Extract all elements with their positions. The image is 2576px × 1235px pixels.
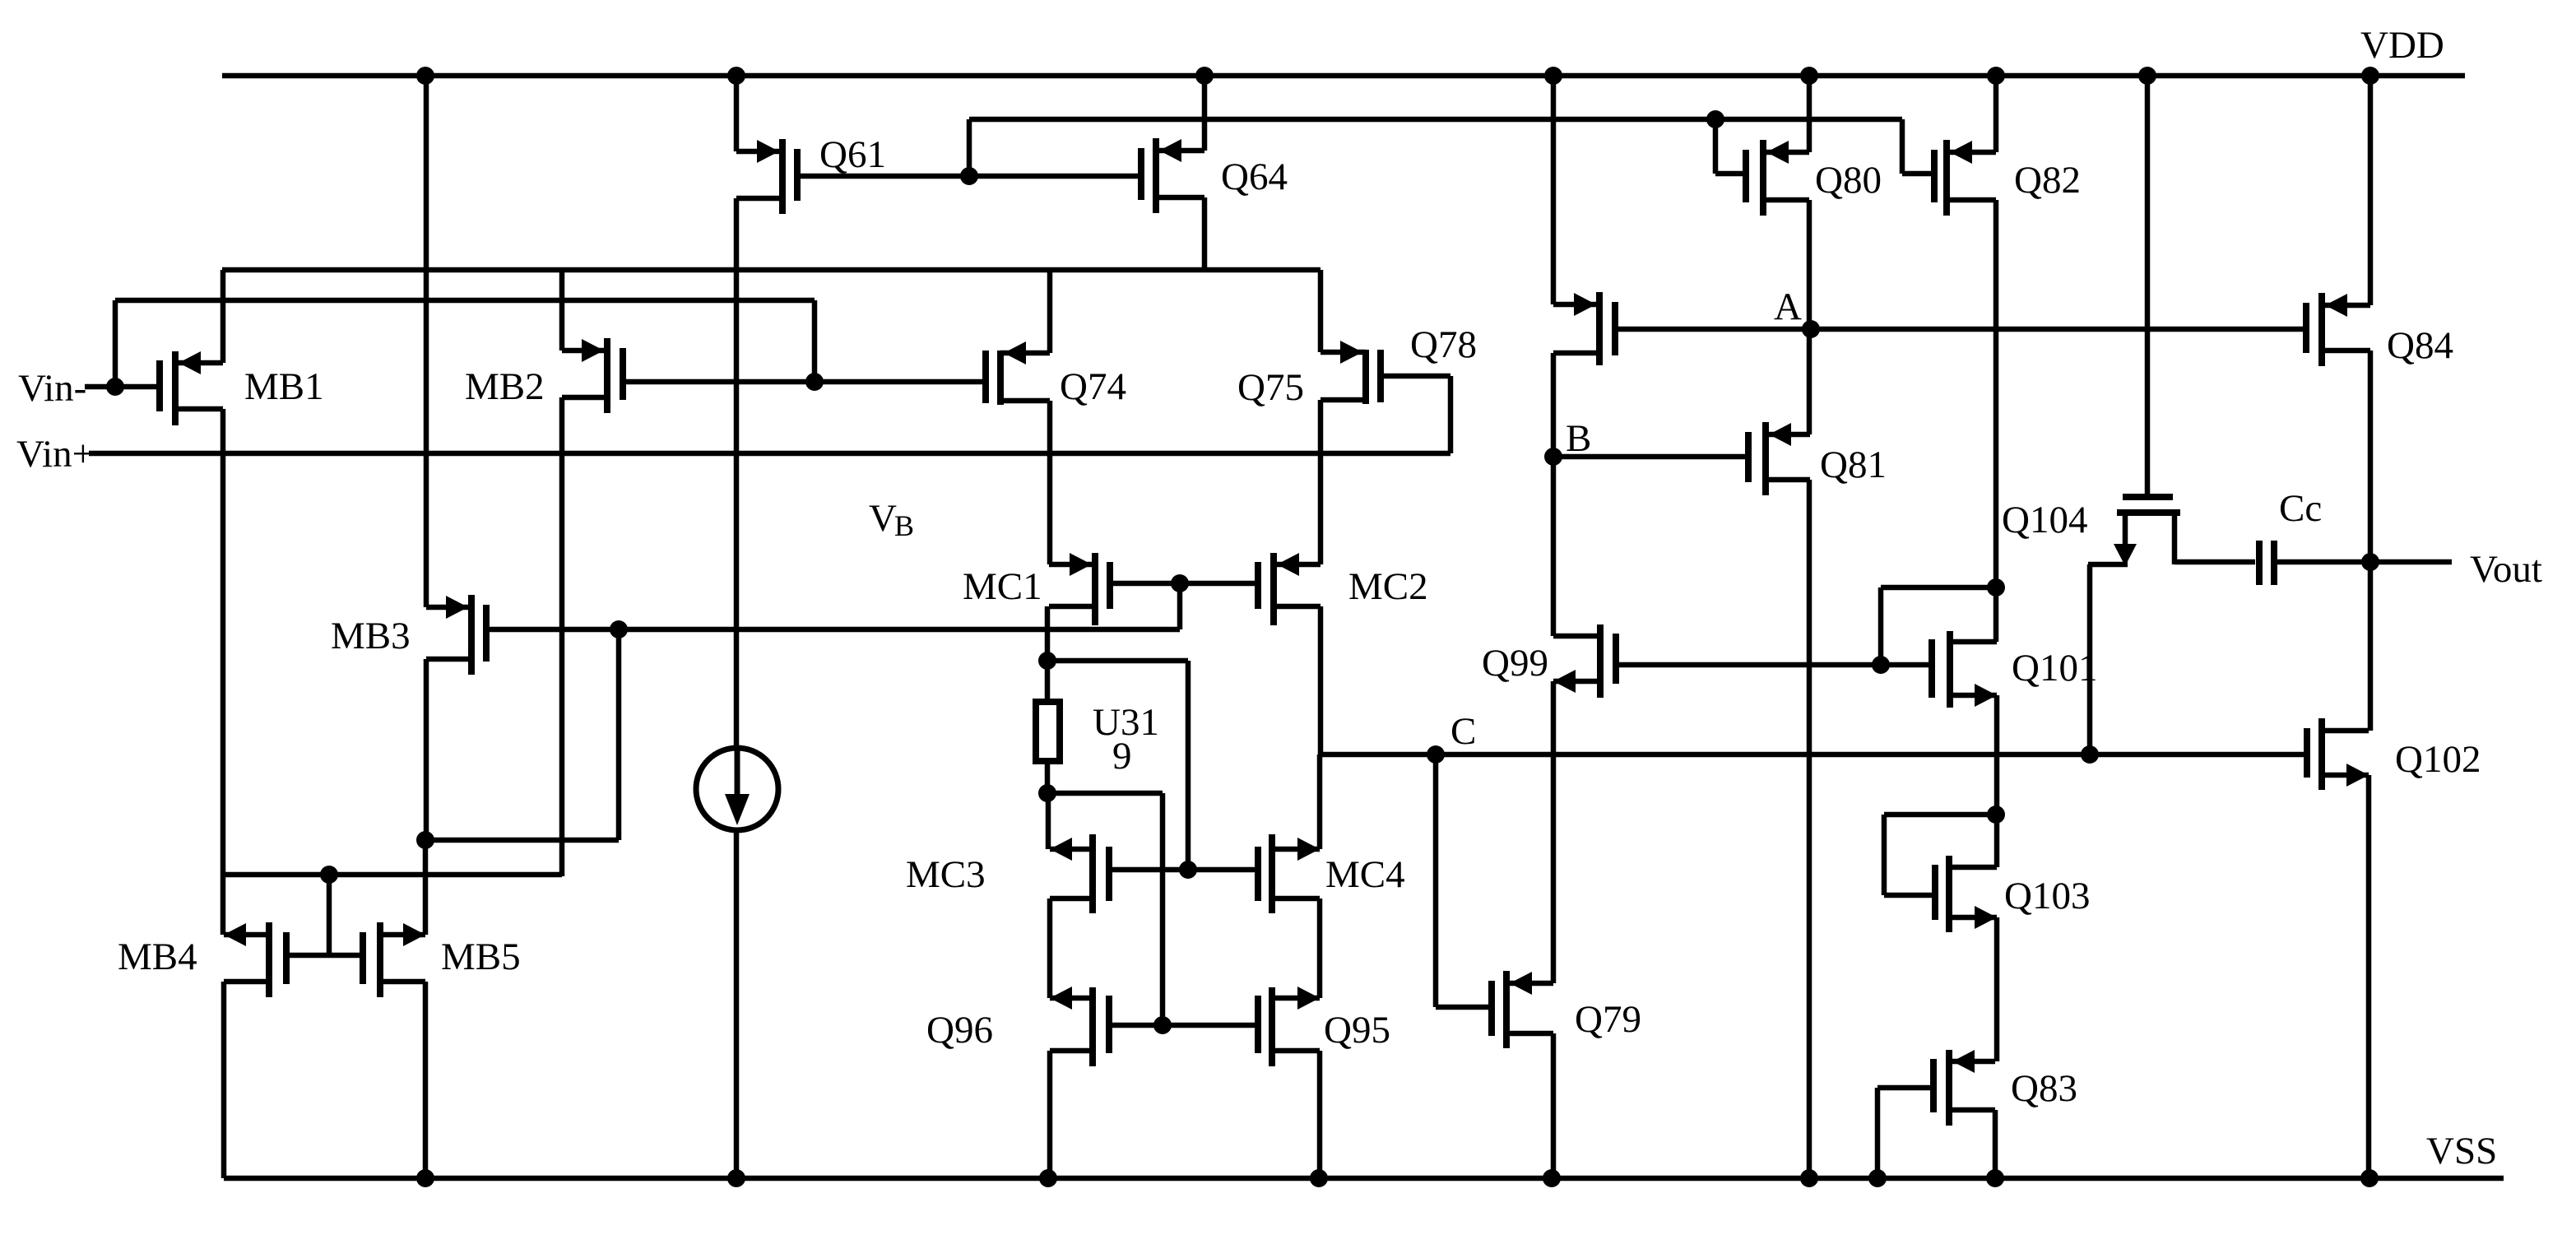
wire Q99-Q101 gate line — [1616, 662, 1932, 668]
svg-text:Q95: Q95 — [1324, 1009, 1390, 1052]
capacitor Cc — [2256, 541, 2263, 585]
transistor MB2 — [604, 338, 610, 413]
wire VDD to Q82 — [1993, 76, 1999, 152]
wire Q64 drain down — [1202, 197, 1208, 270]
node VDD dot 4 — [1544, 67, 1562, 85]
wire Q80 gate lead — [1715, 171, 1746, 177]
svg-text:MC3: MC3 — [906, 853, 986, 896]
wire Q79 gate lead — [1436, 1005, 1492, 1010]
transistor Q61 — [779, 139, 786, 214]
wire MC2 drain down — [1318, 606, 1324, 754]
svg-text:Vin+: Vin+ — [16, 433, 94, 476]
node VDD dot 5 — [1800, 67, 1818, 85]
wire MB1 drain up — [220, 270, 226, 363]
wire MC1 drain down — [1045, 606, 1051, 661]
wire y1063 link — [224, 872, 562, 878]
wire Q103 source down — [1994, 917, 2000, 1061]
wire Vin- riser — [113, 300, 118, 387]
svg-text:Cc: Cc — [2279, 487, 2322, 530]
wire link to Q82 drain — [1881, 585, 1996, 591]
wire Q81 drain down to VSS — [1807, 480, 1812, 1178]
wire Q75 drain down — [1318, 400, 1324, 564]
transistor MB5 — [377, 922, 383, 997]
wire Q75 gate riser — [1448, 376, 1454, 453]
node Q103 top junction — [1987, 806, 2005, 824]
wire Q82 drain down — [1993, 200, 1999, 642]
svg-text:B: B — [1566, 417, 1591, 460]
wire Q78 drain down to B and Q99 — [1551, 353, 1557, 636]
transistor Q81 — [1762, 422, 1769, 495]
wire Q95 source down — [1317, 1051, 1323, 1178]
node VDD dot 7 — [2138, 67, 2156, 85]
wire resistor top to MC3-MC4 gates: horizontal — [1047, 658, 1188, 664]
wire Q75 source up — [1318, 270, 1324, 352]
node VSS dot 4 — [1310, 1169, 1328, 1187]
node VDD dot 6 — [1987, 67, 2005, 85]
node VDD dot 1 — [416, 67, 434, 85]
wire Q83 source to VSS — [1993, 1110, 1998, 1178]
resistor U319 — [1036, 702, 1060, 761]
svg-text:MC4: MC4 — [1325, 853, 1405, 896]
transistor MB3 — [468, 595, 475, 675]
node B junction — [1544, 448, 1562, 466]
wire Q102 source to VSS — [2366, 775, 2372, 1178]
node VSS dot 9 — [2360, 1169, 2379, 1187]
wire MB3 gate line (VB net) — [486, 627, 1180, 633]
node gate line dot — [960, 167, 978, 185]
transistor Q102 — [2318, 718, 2325, 790]
wire Q75 gate lead — [1381, 374, 1450, 379]
wire MC1-MC2 gate line — [1110, 581, 1258, 587]
wire MB1 source down — [220, 409, 226, 935]
node Vin- junction — [106, 378, 124, 396]
wire Q80 drain to A — [1807, 200, 1812, 434]
svg-text:Vin-: Vin- — [18, 367, 86, 410]
transistor Q80 — [1760, 140, 1766, 216]
wire Q83 gate to VSS — [1875, 1088, 1881, 1178]
svg-text:Q83: Q83 — [2011, 1067, 2077, 1110]
wire MB4 source down — [221, 982, 227, 1178]
transistor Q83 — [1946, 1050, 1952, 1126]
wire gate line to MC dot riser — [1177, 583, 1183, 629]
transistor MB1 — [172, 351, 179, 425]
node C dot Q79 tap — [1427, 745, 1445, 764]
node VSS dot 8 — [1986, 1169, 2004, 1187]
wire MB2 drain down — [559, 397, 565, 876]
wire Q79 source to VSS — [1551, 1033, 1557, 1178]
node gate tee junction — [320, 866, 338, 884]
node Vout junction — [2361, 553, 2379, 571]
wire net Vin- horizontal y365 — [115, 298, 815, 304]
wire MC1 to resistor — [1045, 661, 1051, 702]
current source arrow — [735, 750, 740, 802]
svg-text:Q104: Q104 — [2002, 499, 2087, 541]
wire resistor bottom — [1045, 761, 1051, 793]
wire Q79 gate drop — [1433, 754, 1439, 1007]
node A junction — [1802, 320, 1820, 338]
svg-text:MC2: MC2 — [1348, 565, 1428, 608]
node Q80 gate tap — [1706, 110, 1724, 128]
node VSS dot 7 — [1868, 1169, 1887, 1187]
node VDD dot 8 — [2361, 67, 2379, 85]
node Q82 drain junction — [1987, 578, 2005, 597]
transistor Q64 — [1153, 138, 1159, 213]
wire Q74 drain down — [1047, 401, 1053, 564]
wire VDD to Q104 gate — [2145, 76, 2151, 497]
transistor MC1 — [1092, 553, 1098, 625]
transistor Q79 — [1503, 971, 1510, 1048]
wire MB4-MB5 gate tee — [286, 953, 363, 959]
svg-text:Q101: Q101 — [2012, 647, 2097, 689]
wire Q99 source down to Q79 — [1551, 681, 1557, 983]
wire Q74 source up — [1047, 270, 1053, 353]
svg-text:MB5: MB5 — [441, 936, 521, 978]
wire MC3-MC4 gate line — [1109, 867, 1258, 873]
node MC3-MC4 gate dot — [1179, 861, 1197, 879]
transistor Q96 — [1089, 987, 1096, 1066]
transistor Q74 — [997, 351, 1004, 405]
transistor Q99 — [1597, 624, 1604, 698]
wire Vin+ line — [89, 451, 1450, 457]
svg-text:Q99: Q99 — [1482, 642, 1548, 685]
svg-text:9: 9 — [1112, 735, 1132, 778]
svg-text:Q80: Q80 — [1815, 159, 1882, 202]
wire Q101 source down — [1994, 695, 2000, 867]
wire Q61 drain down — [734, 198, 740, 748]
wire MB5 source down — [423, 982, 429, 1178]
transistor Q103 — [1946, 856, 1952, 932]
VSS rail — [224, 1176, 2504, 1182]
transistor Q95 — [1269, 987, 1275, 1066]
node VSS dot 1 — [416, 1169, 434, 1187]
wire Q82 gate lead — [1902, 171, 1934, 177]
wire MB2 source up — [559, 270, 565, 351]
wire Vout lead — [2370, 559, 2452, 565]
wire MC3 to Q96 — [1047, 898, 1053, 998]
node VSS dot 2 — [727, 1169, 745, 1187]
wire Q103 gate lead — [1884, 893, 1935, 898]
wire MC4 up to C line — [1317, 754, 1323, 849]
node VDD dot 2 — [727, 67, 745, 85]
svg-text:Q61: Q61 — [819, 133, 886, 176]
svg-text:VDD: VDD — [2360, 24, 2444, 67]
svg-text:MB2: MB2 — [465, 365, 545, 408]
wire riser to Q96-Q95 gates — [1160, 793, 1166, 1025]
wire resistor bottom to MC3 — [1046, 793, 1051, 849]
wire VDD to Q61 — [734, 76, 740, 151]
wire C line — [1320, 752, 2307, 758]
svg-text:Q81: Q81 — [1820, 443, 1887, 486]
svg-text:Q79: Q79 — [1575, 998, 1641, 1041]
node MB3/MB5 junction — [416, 831, 434, 849]
wire VDD to Q64 — [1202, 76, 1208, 151]
wire Cc right to Vout node — [2277, 559, 2370, 565]
svg-text:Q103: Q103 — [2004, 875, 2090, 917]
transistor Q75 — [1362, 350, 1369, 404]
transistor Q78 — [1596, 292, 1603, 365]
transistor MB4 — [266, 922, 272, 997]
wire current source to VSS — [734, 830, 740, 1178]
wire y145 bias line — [969, 117, 1902, 123]
wire Vin- drop to gate line — [812, 300, 818, 382]
wire MC4 to Q95 — [1317, 898, 1323, 998]
transistor Q82 — [1943, 140, 1950, 216]
wire Q96-Q95 gate line — [1109, 1023, 1258, 1028]
wire MB3 lower — [424, 659, 429, 840]
svg-text:MB3: MB3 — [331, 615, 411, 657]
wire VDD to Q78 — [1551, 76, 1557, 304]
wire Q61-Q64 gate line — [797, 174, 1141, 179]
transistor Q101 — [1947, 631, 1953, 708]
svg-text:Q75: Q75 — [1237, 366, 1304, 409]
svg-text:Q102: Q102 — [2395, 738, 2481, 781]
wire A line Q78 gate to Q84 gate — [1615, 327, 2306, 332]
node MB3 gate tap — [610, 620, 628, 638]
wire Q96 source down — [1047, 1051, 1053, 1178]
svg-text:Q82: Q82 — [2014, 159, 2081, 202]
node VSS dot 3 — [1039, 1169, 1057, 1187]
svg-text:Q78: Q78 — [1410, 323, 1477, 366]
node resistor top — [1038, 652, 1056, 670]
wire VDD to Q84 — [2368, 76, 2374, 305]
wire y1021 link — [425, 838, 619, 843]
node resistor bottom — [1038, 784, 1056, 802]
wire Q83 gate lead — [1877, 1085, 1933, 1091]
node VSS dot 6 — [1800, 1169, 1818, 1187]
node gate line tap — [1872, 656, 1890, 674]
svg-text:A: A — [1774, 286, 1802, 328]
node C dot Q104 tap — [2081, 745, 2099, 764]
svg-text:Q74: Q74 — [1060, 365, 1126, 408]
wire gate riser — [967, 119, 972, 176]
wire Q80 gate drop — [1713, 119, 1719, 174]
transistor MC2 — [1270, 553, 1277, 625]
wire VDD to MB3 — [424, 76, 429, 607]
svg-text:Q84: Q84 — [2387, 324, 2453, 367]
svg-text:Q96: Q96 — [926, 1009, 993, 1052]
wire MB2-Q74 gate line — [623, 379, 986, 385]
wire Vout node to Q102 — [2368, 562, 2374, 731]
wire Q104 to C line — [2087, 564, 2093, 754]
wire net y328 (MB1/MB2/Q74/Q64/Q75) — [222, 267, 1320, 273]
current source I1 circle — [696, 748, 778, 830]
transistor MC4 — [1269, 834, 1275, 913]
node VDD dot 3 — [1195, 67, 1214, 85]
svg-text:VSS: VSS — [2426, 1130, 2497, 1172]
node Q96-Q95 gate dot — [1153, 1016, 1172, 1034]
wire Q82 gate drop — [1900, 119, 1905, 174]
svg-text:MB4: MB4 — [118, 936, 197, 978]
wire MB5 drain up — [423, 840, 429, 935]
wire Q103 gate loop horiz top — [1884, 812, 1996, 818]
wire Q84 drain to Vout node — [2368, 351, 2374, 562]
wire y964 link — [1047, 791, 1163, 796]
svg-text:MC1: MC1 — [963, 565, 1042, 608]
svg-text:Vout: Vout — [2470, 548, 2542, 591]
wire Q103 gate loop vert — [1882, 815, 1887, 895]
node VSS dot 5 — [1543, 1169, 1561, 1187]
transistor Q84 — [2318, 293, 2325, 366]
wire gate tap drop — [616, 629, 622, 840]
svg-text:MB1: MB1 — [244, 365, 324, 408]
wire gate tap riser — [1878, 587, 1884, 665]
svg-text:V: V — [869, 497, 897, 540]
VDD rail — [222, 73, 2465, 79]
node MC gate dot — [1171, 574, 1189, 592]
node gate line junction — [805, 373, 824, 391]
wire riser to MC3-MC4 gates — [1186, 661, 1191, 870]
transistor MC3 — [1089, 834, 1096, 913]
wire Vin- lead — [85, 384, 160, 390]
wire B to Q81 gate — [1553, 454, 1748, 460]
svg-text:B: B — [894, 509, 914, 542]
svg-text:Q64: Q64 — [1221, 156, 1288, 198]
wire gate tee riser — [327, 875, 332, 955]
svg-text:C: C — [1450, 710, 1476, 753]
wire VDD to Q80 — [1807, 76, 1812, 152]
